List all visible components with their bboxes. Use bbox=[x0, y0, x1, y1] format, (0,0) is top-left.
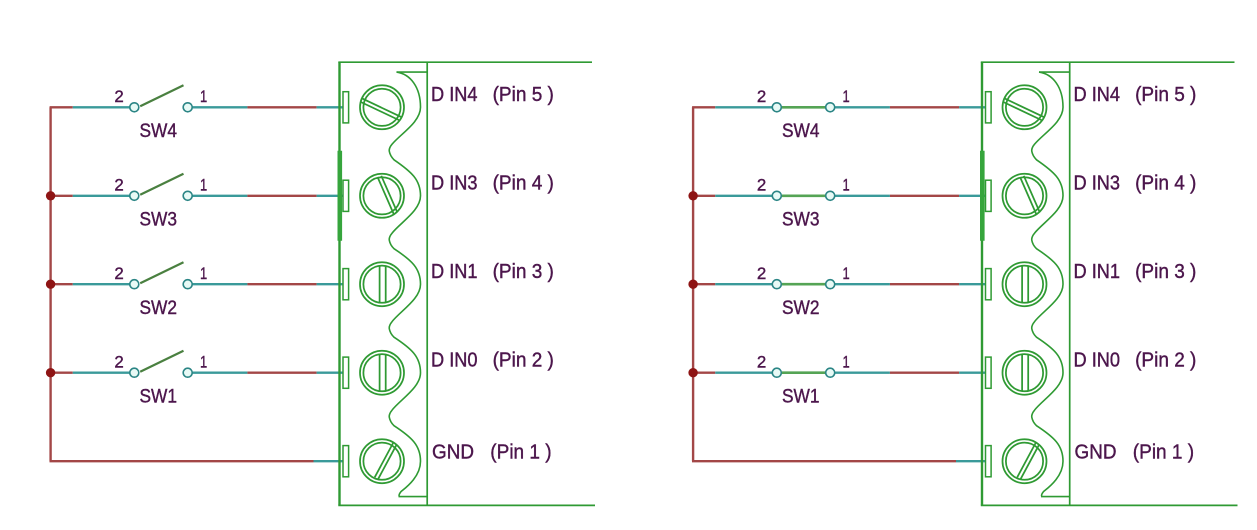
switch SW3 (closed) bbox=[772, 191, 834, 200]
svg-text:1: 1 bbox=[843, 87, 850, 106]
svg-text:SW2: SW2 bbox=[140, 298, 178, 319]
wire SW1 pin1 teal segment bbox=[192, 372, 247, 374]
svg-text:1: 1 bbox=[843, 264, 850, 283]
svg-text:(Pin 3 ): (Pin 3 ) bbox=[1135, 261, 1196, 283]
connector J2 pin 4 contact pad bbox=[986, 180, 992, 211]
connector J1 pin 4 contact pad bbox=[343, 180, 349, 211]
svg-text:2: 2 bbox=[757, 176, 766, 195]
wire SW3 pin2 red segment bbox=[692, 195, 715, 197]
J2 pin 4 screw bbox=[1003, 174, 1047, 218]
J1 pin 3 screw bbox=[360, 262, 404, 306]
wire GND red segment bbox=[50, 460, 314, 462]
wire SW3 to connector teal segment bbox=[317, 195, 344, 197]
wire SW4 pin1 teal segment bbox=[835, 106, 890, 108]
svg-text:1: 1 bbox=[200, 176, 207, 195]
connector J1 pin 2 contact pad bbox=[343, 357, 349, 388]
wire SW3 to connector teal segment bbox=[959, 195, 986, 197]
wire SW4 to connector teal segment bbox=[317, 106, 344, 108]
svg-text:(Pin 1 ): (Pin 1 ) bbox=[1133, 441, 1194, 463]
left circuit: switches open bbox=[46, 62, 595, 505]
switch SW1 (open) bbox=[130, 351, 192, 378]
svg-text:2: 2 bbox=[757, 352, 766, 371]
wire SW4 pin1 red segment bbox=[890, 106, 959, 108]
svg-text:D IN4: D IN4 bbox=[1074, 84, 1121, 106]
wire SW4 pin2 teal segment bbox=[73, 106, 130, 108]
switch SW2 (closed) bbox=[772, 280, 834, 289]
svg-text:GND: GND bbox=[432, 441, 474, 463]
svg-text:2: 2 bbox=[114, 87, 123, 106]
switch SW4 (closed) bbox=[772, 103, 834, 112]
wire SW2 pin1 teal segment bbox=[835, 283, 890, 285]
svg-text:2: 2 bbox=[757, 87, 766, 106]
wire SW2 pin1 teal segment bbox=[192, 283, 247, 285]
wire SW2 pin2 red segment bbox=[50, 283, 73, 285]
wire SW1 pin1 red segment bbox=[890, 372, 959, 374]
J2 pin 3 screw bbox=[1003, 262, 1047, 306]
wire SW1 to connector teal segment bbox=[959, 372, 986, 374]
svg-text:(Pin 2 ): (Pin 2 ) bbox=[1135, 350, 1196, 372]
wire SW3 pin1 red segment bbox=[890, 195, 959, 197]
svg-text:2: 2 bbox=[114, 264, 123, 283]
wire SW4 pin2 red segment bbox=[50, 106, 73, 108]
wire SW4 pin1 red segment bbox=[247, 106, 316, 108]
svg-text:1: 1 bbox=[843, 352, 850, 371]
connector J2 pin 2 contact pad bbox=[986, 357, 992, 388]
svg-text:(Pin 4 ): (Pin 4 ) bbox=[1135, 173, 1196, 195]
wire SW4 pin2 red segment bbox=[692, 106, 715, 108]
svg-text:1: 1 bbox=[200, 87, 207, 106]
junction node at SW1 row bbox=[688, 368, 697, 377]
wire GND teal segment bbox=[314, 460, 344, 462]
svg-text:(Pin 5 ): (Pin 5 ) bbox=[1135, 84, 1196, 106]
svg-text:1: 1 bbox=[843, 176, 850, 195]
svg-text:(Pin 4 ): (Pin 4 ) bbox=[493, 173, 554, 195]
wire SW2 pin2 red segment bbox=[692, 283, 715, 285]
right circuit: switches closed bbox=[688, 62, 1237, 505]
wire SW2 pin2 teal segment bbox=[715, 283, 772, 285]
J2 pin 2 screw bbox=[1003, 351, 1047, 395]
wire SW4 to connector teal segment bbox=[959, 106, 986, 108]
wire SW2 pin1 red segment bbox=[890, 283, 959, 285]
switch SW2 (open) bbox=[130, 262, 192, 289]
svg-text:SW1: SW1 bbox=[782, 387, 820, 408]
svg-text:1: 1 bbox=[200, 264, 207, 283]
svg-text:SW4: SW4 bbox=[140, 121, 178, 142]
wire SW1 pin2 teal segment bbox=[715, 372, 772, 374]
J1 pin 4 screw bbox=[360, 174, 404, 218]
svg-text:SW4: SW4 bbox=[782, 121, 820, 142]
switch SW1 (closed) bbox=[772, 368, 834, 377]
wire SW1 pin1 red segment bbox=[247, 372, 316, 374]
svg-text:GND: GND bbox=[1075, 441, 1117, 463]
connector J2 pin 1 contact pad bbox=[986, 446, 992, 477]
wire SW3 pin1 red segment bbox=[247, 195, 316, 197]
connector J1 pin 1 contact pad bbox=[343, 446, 349, 477]
switch SW3 (open) bbox=[130, 174, 192, 201]
J2 pin 5 screw bbox=[1003, 85, 1047, 129]
wire J2 GND bus vertical bbox=[692, 107, 694, 461]
wire SW1 pin2 red segment bbox=[692, 372, 715, 374]
wire SW1 to connector teal segment bbox=[317, 372, 344, 374]
svg-text:D IN0: D IN0 bbox=[1074, 350, 1121, 372]
connector J1 pin 3 contact pad bbox=[343, 269, 349, 300]
wire SW4 pin2 teal segment bbox=[715, 106, 772, 108]
junction node at SW3 row bbox=[46, 191, 55, 200]
svg-text:D IN4: D IN4 bbox=[431, 84, 478, 106]
svg-text:SW3: SW3 bbox=[782, 210, 820, 231]
wire SW4 pin1 teal segment bbox=[192, 106, 247, 108]
wire SW2 pin2 teal segment bbox=[73, 283, 130, 285]
junction node at SW2 row bbox=[688, 280, 697, 289]
wire SW3 pin1 teal segment bbox=[835, 195, 890, 197]
connector J1 pin 5 contact pad bbox=[343, 92, 349, 123]
connector J2 pin 5 contact pad bbox=[986, 92, 992, 123]
wire SW3 pin2 teal segment bbox=[73, 195, 130, 197]
wire SW1 pin1 teal segment bbox=[835, 372, 890, 374]
junction node at SW1 row bbox=[46, 368, 55, 377]
wire SW2 to connector teal segment bbox=[959, 283, 986, 285]
svg-text:D IN3: D IN3 bbox=[431, 173, 478, 195]
J2 pin 1 screw bbox=[1003, 439, 1047, 483]
wire SW2 pin1 red segment bbox=[247, 283, 316, 285]
svg-text:SW2: SW2 bbox=[782, 298, 820, 319]
wire SW3 pin1 teal segment bbox=[192, 195, 247, 197]
connector terminal block J1 body bbox=[338, 62, 595, 505]
wire SW2 to connector teal segment bbox=[317, 283, 344, 285]
wire J1 GND bus vertical bbox=[49, 107, 51, 461]
svg-text:SW3: SW3 bbox=[140, 210, 178, 231]
wire SW1 pin2 teal segment bbox=[73, 372, 130, 374]
svg-text:D IN1: D IN1 bbox=[431, 261, 478, 283]
switch SW4 (open) bbox=[130, 85, 192, 112]
svg-text:(Pin 5 ): (Pin 5 ) bbox=[493, 84, 554, 106]
wire SW3 pin2 red segment bbox=[50, 195, 73, 197]
svg-text:D IN3: D IN3 bbox=[1074, 173, 1121, 195]
junction node at SW3 row bbox=[688, 191, 697, 200]
wire SW3 pin2 teal segment bbox=[715, 195, 772, 197]
connector terminal block J2 body bbox=[981, 62, 1238, 505]
J1 pin 2 screw bbox=[360, 351, 404, 395]
wire GND red segment bbox=[692, 460, 956, 462]
J1 pin 5 screw bbox=[360, 85, 404, 129]
connector J2 pin 3 contact pad bbox=[986, 269, 992, 300]
svg-text:D IN0: D IN0 bbox=[431, 350, 478, 372]
svg-text:SW1: SW1 bbox=[140, 387, 178, 408]
wire GND teal segment bbox=[956, 460, 986, 462]
svg-text:D IN1: D IN1 bbox=[1074, 261, 1121, 283]
svg-text:(Pin 1 ): (Pin 1 ) bbox=[490, 441, 551, 463]
svg-text:2: 2 bbox=[114, 176, 123, 195]
svg-text:(Pin 2 ): (Pin 2 ) bbox=[493, 350, 554, 372]
junction node at SW2 row bbox=[46, 280, 55, 289]
svg-text:2: 2 bbox=[114, 352, 123, 371]
svg-text:1: 1 bbox=[200, 352, 207, 371]
svg-text:2: 2 bbox=[757, 264, 766, 283]
wire SW1 pin2 red segment bbox=[50, 372, 73, 374]
J1 pin 1 screw bbox=[360, 439, 404, 483]
svg-text:(Pin 3 ): (Pin 3 ) bbox=[493, 261, 554, 283]
